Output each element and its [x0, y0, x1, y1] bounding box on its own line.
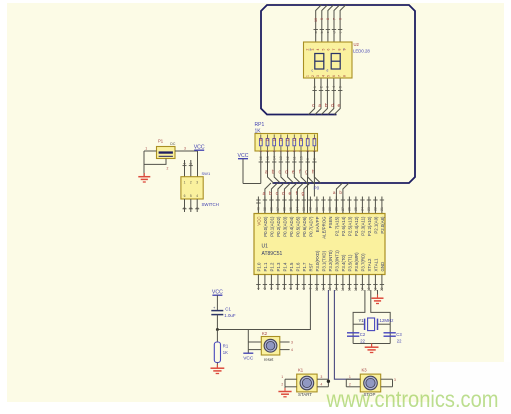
- svg-text:16: 16: [259, 156, 263, 160]
- svg-text:DC: DC: [170, 142, 176, 146]
- svg-text:40: 40: [257, 207, 261, 211]
- MCU top pin stubs: [257, 197, 259, 214]
- svg-text:P2.5(A13): P2.5(A13): [348, 216, 353, 236]
- svg-text:b: b: [320, 31, 324, 33]
- svg-text:a: a: [263, 191, 266, 197]
- svg-text:7: 7: [332, 48, 336, 50]
- svg-text:10: 10: [299, 156, 303, 160]
- svg-text:1: 1: [349, 375, 351, 379]
- svg-text:1: 1: [257, 287, 261, 289]
- svg-text:3: 3: [184, 147, 186, 151]
- wire VCC to C1: [216, 295, 218, 310]
- svg-text:XTAL2: XTAL2: [367, 258, 372, 272]
- svg-text:9: 9: [306, 138, 310, 140]
- svg-text:5: 5: [327, 75, 331, 77]
- svg-text:P3.4(T0): P3.4(T0): [341, 254, 346, 271]
- DIP switch S1: [181, 177, 203, 199]
- svg-text:8: 8: [343, 75, 347, 77]
- svg-text:P3.1(TXD): P3.1(TXD): [322, 250, 327, 271]
- pin numbers below display: [312, 90, 316, 92]
- svg-text:VCC: VCC: [243, 355, 254, 361]
- svg-text:2: 2: [167, 166, 169, 170]
- svg-text:C2: C2: [360, 332, 366, 337]
- svg-text:P2.2(A10): P2.2(A10): [367, 216, 372, 236]
- svg-text:16: 16: [354, 287, 358, 291]
- svg-text:9: 9: [309, 287, 313, 289]
- capacitor C3: [384, 333, 396, 336]
- svg-text:8: 8: [337, 48, 341, 50]
- svg-text:15: 15: [266, 138, 270, 142]
- svg-text:b: b: [272, 170, 275, 176]
- svg-text:10: 10: [314, 18, 318, 22]
- svg-text:25: 25: [354, 207, 358, 211]
- VCC symbol (reset): [212, 294, 222, 296]
- VCC symbol (RP1 pull-up): [238, 158, 248, 160]
- MCU bottom pin ticks/numbers: [256, 284, 260, 286]
- svg-text:1K: 1K: [223, 350, 228, 355]
- svg-text:2: 2: [281, 382, 283, 386]
- svg-text:4: 4: [276, 287, 280, 289]
- svg-text:30: 30: [322, 207, 326, 211]
- svg-text:22: 22: [397, 339, 402, 344]
- svg-text:C1: C1: [225, 306, 231, 311]
- svg-text:37: 37: [276, 207, 280, 211]
- svg-text:P2.0(A8): P2.0(A8): [380, 216, 385, 234]
- svg-text:3: 3: [291, 341, 293, 345]
- wire: XTAL2 to crystal left: [353, 290, 365, 344]
- wire: MCU P3.2 down to K1: [327, 290, 329, 379]
- wires: bus entries down to MCU P0 pins: [265, 183, 271, 214]
- RP1 pin ticks and numbers: [259, 161, 263, 163]
- svg-text:22: 22: [374, 207, 378, 211]
- svg-text:SW1: SW1: [202, 171, 211, 176]
- svg-text:www.cntronics.com: www.cntronics.com: [326, 386, 499, 412]
- svg-text:11: 11: [293, 138, 297, 142]
- wire: crystal bottom rail: [353, 343, 390, 345]
- svg-text:2: 2: [263, 287, 267, 289]
- svg-text:P1.1: P1.1: [263, 262, 268, 272]
- pin number labels above display: [314, 29, 318, 31]
- svg-text:20: 20: [380, 287, 384, 291]
- svg-text:P0.3(AD3): P0.3(AD3): [283, 216, 288, 237]
- wire VCC to RP1 pin 1: [242, 159, 244, 184]
- capacitor C2: [347, 333, 359, 336]
- wire: K2 tie to RST line: [247, 330, 249, 350]
- K1 left pins to ground: [285, 378, 297, 380]
- svg-text:2: 2: [319, 86, 323, 88]
- svg-text:P0.4(AD4): P0.4(AD4): [289, 216, 294, 237]
- svg-text:2: 2: [311, 75, 315, 77]
- svg-text:c: c: [312, 103, 315, 109]
- svg-text:d: d: [331, 103, 334, 109]
- svg-text:a: a: [310, 48, 312, 52]
- svg-text:PSEN: PSEN: [328, 217, 333, 229]
- svg-text:GND: GND: [380, 262, 385, 272]
- svg-text:3: 3: [321, 375, 323, 379]
- svg-text:3: 3: [394, 378, 396, 382]
- svg-text:P3.0(RXD): P3.0(RXD): [315, 250, 320, 272]
- microcontroller U1 AT89C51: [254, 214, 385, 275]
- svg-text:22: 22: [360, 339, 365, 344]
- svg-text:P3.6(WR): P3.6(WR): [354, 252, 359, 272]
- K2 right pins: [280, 341, 290, 343]
- svg-text:6: 6: [189, 207, 193, 209]
- wires: display bottom pins to lower bus: [309, 78, 315, 115]
- svg-text:XTAL1: XTAL1: [374, 258, 379, 272]
- svg-text:SWITCH: SWITCH: [202, 202, 219, 207]
- svg-text:f: f: [344, 48, 345, 52]
- MCU bottom pin stubs: [257, 275, 259, 291]
- svg-text:e: e: [289, 191, 292, 197]
- ground (R1): [216, 365, 218, 368]
- svg-text:RP1: RP1: [255, 122, 265, 128]
- svg-text:39: 39: [263, 207, 267, 211]
- wire: MCU GND pin: [377, 290, 379, 297]
- svg-text:4: 4: [316, 48, 320, 50]
- svg-text:P0.6(AD6): P0.6(AD6): [302, 216, 307, 237]
- svg-text:5: 5: [190, 194, 192, 198]
- svg-text:1: 1: [183, 163, 187, 165]
- junction node: [216, 328, 219, 331]
- svg-text:27: 27: [341, 207, 345, 211]
- svg-text:6: 6: [195, 207, 199, 209]
- svg-text:d: d: [282, 191, 285, 197]
- P1 pin 3 wire to VCC/switch: [175, 150, 198, 152]
- svg-text:b: b: [269, 191, 272, 197]
- svg-text:2: 2: [189, 163, 193, 165]
- svg-text:VCC: VCC: [194, 144, 205, 150]
- white patch bottom-right: [430, 362, 511, 414]
- svg-text:1: 1: [313, 86, 317, 88]
- switch S1 top stubs: [184, 160, 186, 177]
- svg-text:b: b: [339, 190, 342, 195]
- svg-text:5: 5: [339, 86, 343, 88]
- svg-text:P3.2(INT0): P3.2(INT0): [328, 250, 333, 272]
- svg-text:K3: K3: [362, 368, 368, 373]
- svg-text:3: 3: [326, 86, 330, 88]
- capacitor C1: [211, 305, 223, 315]
- svg-text:10: 10: [315, 287, 319, 291]
- svg-text:29: 29: [328, 207, 332, 211]
- svg-text:d: d: [327, 69, 329, 73]
- svg-text:RST: RST: [309, 262, 314, 271]
- svg-text:14: 14: [341, 287, 345, 291]
- K1 right pins: [317, 378, 328, 380]
- svg-text:b: b: [325, 103, 328, 109]
- svg-text:34: 34: [296, 207, 300, 211]
- push button K2: [261, 337, 280, 356]
- resistor network RP1: [255, 134, 318, 153]
- svg-text:14: 14: [272, 138, 276, 142]
- svg-text:31: 31: [315, 207, 319, 211]
- svg-text:36: 36: [283, 207, 287, 211]
- svg-text:e: e: [338, 103, 341, 109]
- svg-text:6: 6: [289, 287, 293, 289]
- svg-text:4: 4: [291, 348, 293, 352]
- svg-text:6: 6: [184, 194, 186, 198]
- svg-text:VCC: VCC: [212, 289, 223, 295]
- svg-text:P0.2(AD2): P0.2(AD2): [276, 216, 281, 237]
- wire VCC down to switch: [197, 151, 199, 177]
- svg-text:12MHz: 12MHz: [380, 318, 394, 323]
- ground (K1): [284, 387, 286, 391]
- svg-text:P0.7(AD7): P0.7(AD7): [309, 216, 314, 237]
- svg-text:7: 7: [332, 18, 336, 20]
- svg-text:P3.7(RD): P3.7(RD): [361, 253, 366, 272]
- svg-text:9: 9: [320, 18, 324, 20]
- svg-text:4: 4: [332, 86, 336, 88]
- svg-text:14: 14: [273, 156, 277, 160]
- svg-text:P0: P0: [314, 186, 320, 191]
- svg-text:Y1: Y1: [359, 318, 365, 323]
- wire C1 to junction: [216, 315, 218, 330]
- wires: display top pins to bus: [316, 5, 322, 42]
- svg-text:P1: P1: [158, 139, 164, 144]
- MCU top pin ticks/numbers: [256, 199, 260, 201]
- svg-text:K1: K1: [298, 368, 304, 373]
- svg-text:g: g: [302, 191, 305, 197]
- wire: XTAL1 to crystal right: [371, 290, 390, 344]
- svg-text:16: 16: [259, 138, 263, 142]
- svg-text:26: 26: [348, 207, 352, 211]
- svg-text:28: 28: [335, 207, 339, 211]
- connector P1: [157, 147, 176, 159]
- svg-text:1: 1: [281, 375, 283, 379]
- svg-text:VCC: VCC: [257, 217, 262, 226]
- svg-text:4: 4: [321, 382, 323, 386]
- wires: RP1 pins 8,9 straight down to MCU: [307, 151, 309, 214]
- bus loop (display to MCU P0 bus): [261, 5, 415, 183]
- svg-text:12: 12: [286, 138, 290, 142]
- svg-text:VCC: VCC: [238, 153, 249, 159]
- svg-text:23: 23: [367, 207, 371, 211]
- svg-text:11: 11: [322, 287, 326, 291]
- svg-text:P0.1(AD1): P0.1(AD1): [270, 216, 275, 237]
- svg-text:17: 17: [361, 287, 365, 291]
- K3 right pins: [381, 378, 393, 380]
- wire junction down to R1: [216, 330, 218, 343]
- svg-text:10: 10: [299, 138, 303, 142]
- VCC symbol (K2): [247, 350, 249, 354]
- svg-text:e: e: [338, 31, 342, 33]
- wires: RP1 pins to bus: [260, 151, 262, 184]
- ground (MCU GND): [377, 295, 379, 298]
- svg-text:START: START: [298, 392, 312, 397]
- wire R1 to ground: [216, 363, 218, 368]
- svg-text:c: c: [326, 31, 330, 33]
- svg-text:1.0uF: 1.0uF: [224, 313, 236, 318]
- svg-text:15: 15: [266, 156, 270, 160]
- P1 pin 1 wire to ground: [144, 150, 157, 152]
- svg-text:a: a: [318, 103, 321, 109]
- ground (P1): [143, 173, 145, 176]
- svg-text:3: 3: [196, 181, 198, 185]
- svg-text:e: e: [292, 170, 295, 176]
- VCC symbol (switch): [194, 149, 204, 151]
- svg-text:1: 1: [145, 147, 147, 151]
- svg-text:38: 38: [270, 207, 274, 211]
- svg-text:C3: C3: [396, 332, 402, 337]
- svg-text:a: a: [314, 31, 318, 33]
- svg-text:reset: reset: [264, 357, 274, 362]
- svg-text:P2.4(A12): P2.4(A12): [354, 216, 359, 236]
- svg-text:13: 13: [279, 138, 283, 142]
- svg-text:35: 35: [289, 207, 293, 211]
- svg-text:P1.7: P1.7: [302, 262, 307, 272]
- svg-text:2: 2: [190, 181, 192, 185]
- svg-text:P1.5: P1.5: [289, 262, 294, 272]
- wires: bus entries to MCU P2.7/P2.6: [336, 183, 342, 214]
- svg-text:P3.5(T1): P3.5(T1): [348, 254, 353, 271]
- svg-text:6: 6: [332, 75, 336, 77]
- svg-text:3: 3: [316, 75, 320, 77]
- svg-text:a: a: [333, 190, 336, 195]
- svg-text:8: 8: [302, 287, 306, 289]
- svg-text:P1.0: P1.0: [257, 262, 262, 272]
- svg-text:12: 12: [286, 156, 290, 160]
- svg-text:AT89C51: AT89C51: [262, 251, 283, 257]
- svg-text:P0.0(AD0): P0.0(AD0): [263, 216, 268, 237]
- svg-text:EA/VPP: EA/VPP: [315, 216, 320, 232]
- 7-segment LED display U2: [304, 42, 353, 78]
- svg-text:5: 5: [321, 48, 325, 50]
- svg-text:ALE/PROG: ALE/PROG: [322, 216, 327, 239]
- svg-text:LED0.28: LED0.28: [353, 48, 370, 53]
- svg-text:6: 6: [338, 18, 342, 20]
- svg-text:13: 13: [335, 287, 339, 291]
- switch bottom stubs: [184, 199, 186, 212]
- wire RST net: MCU pin 9 to reset circuit: [217, 290, 310, 330]
- svg-text:P2.1(A9): P2.1(A9): [374, 216, 379, 234]
- svg-text:11: 11: [293, 156, 297, 160]
- svg-text:4: 4: [321, 75, 325, 77]
- svg-text:P0.5(AD5): P0.5(AD5): [296, 216, 301, 237]
- svg-text:d: d: [285, 170, 288, 176]
- svg-text:1: 1: [306, 75, 310, 77]
- wire: MCU P3.3 down to K3: [334, 290, 360, 379]
- resistor R1: [214, 342, 220, 363]
- svg-text:P2.6(A14): P2.6(A14): [341, 216, 346, 236]
- K3 left pins: [346, 378, 360, 380]
- svg-text:U1: U1: [262, 244, 269, 250]
- svg-text:P1.4: P1.4: [283, 262, 288, 272]
- svg-text:7: 7: [296, 287, 300, 289]
- svg-text:6: 6: [183, 207, 187, 209]
- svg-text:13: 13: [279, 156, 283, 160]
- svg-text:P3.3(INT1): P3.3(INT1): [335, 250, 340, 272]
- svg-text:8: 8: [313, 138, 317, 140]
- svg-text:P1.3: P1.3: [276, 262, 281, 272]
- crystal Y1: [353, 318, 390, 331]
- svg-text:P2.3(A11): P2.3(A11): [361, 216, 366, 236]
- svg-text:a: a: [265, 170, 268, 176]
- svg-text:3: 3: [270, 287, 274, 289]
- svg-text:P1.6: P1.6: [296, 262, 301, 272]
- svg-text:15: 15: [348, 287, 352, 291]
- svg-text:6: 6: [327, 48, 331, 50]
- svg-text:d: d: [332, 31, 336, 33]
- ground (crystal): [371, 344, 373, 347]
- svg-text:P2.7(A15): P2.7(A15): [335, 216, 340, 236]
- svg-text:1: 1: [184, 181, 186, 185]
- svg-text:4: 4: [196, 194, 198, 198]
- svg-text:32: 32: [309, 207, 313, 211]
- svg-text:5: 5: [283, 287, 287, 289]
- svg-text:R1: R1: [223, 344, 229, 349]
- P1 pin 2 wire: [144, 159, 166, 165]
- svg-text:24: 24: [361, 207, 365, 211]
- svg-text:3: 3: [311, 48, 315, 50]
- svg-text:33: 33: [302, 207, 306, 211]
- svg-text:P1.2: P1.2: [270, 262, 275, 272]
- svg-text:8: 8: [326, 18, 330, 20]
- svg-text:21: 21: [380, 207, 384, 211]
- svg-text:U2: U2: [354, 42, 360, 47]
- svg-text:K2: K2: [262, 331, 268, 336]
- svg-text:7: 7: [337, 75, 341, 77]
